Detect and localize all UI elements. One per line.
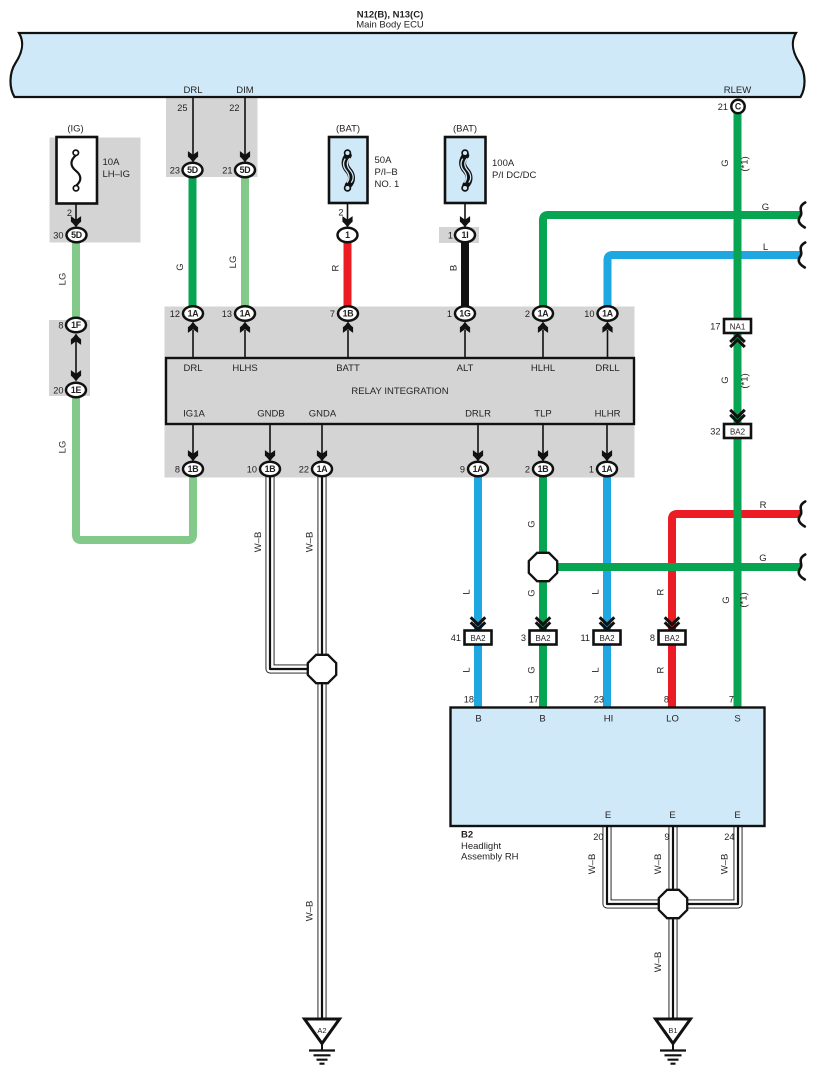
arrowhead relay HLHS up [240,322,250,333]
wire R from right break to headlight pin 8 LO [672,514,800,712]
wire LG from 5D-30 to 1F-8 [72,235,80,325]
svg-text:B: B [449,265,460,271]
svg-text:DRLL: DRLL [595,363,619,374]
svg-text:R: R [760,500,767,511]
svg-text:P/I–B: P/I–B [375,167,398,178]
arrowhead relay GNDA down [317,450,327,461]
svg-text:W–B: W–B [305,901,316,922]
svg-text:2: 2 [525,309,530,319]
svg-text:5D: 5D [71,230,82,240]
svg-text:5D: 5D [240,165,251,175]
connector 1A pin 1 [597,462,617,476]
arrowhead relay GNDB down [265,450,275,461]
wire relay pin GNDB [269,424,271,455]
svg-text:10: 10 [247,465,257,475]
gray panel 1F/1E [49,320,90,396]
svg-text:E: E [605,810,611,821]
svg-text:LG: LG [58,441,69,454]
arrowhead relay TLP down [538,450,548,461]
wire relay pin DRLL [607,330,609,358]
svg-text:1A: 1A [188,309,200,319]
svg-text:BA2: BA2 [730,428,746,437]
svg-text:DRL: DRL [183,363,202,374]
connector 1A pin 12 [183,306,203,320]
svg-text:9: 9 [460,465,465,475]
connector 1A pin 22 [312,462,332,476]
svg-text:22: 22 [299,465,309,475]
svg-text:1: 1 [345,230,350,240]
connector 1A pin 13 [235,306,255,320]
connector 1F pin 8 [66,318,86,332]
arrowhead to 5D-30 [71,216,81,227]
wire relay pin ALT [464,330,466,358]
svg-text:BA2: BA2 [535,634,551,643]
chevron down to BA2-3 [536,617,551,629]
svg-text:G: G [527,520,538,527]
svg-text:RLEW: RLEW [724,85,751,96]
svg-text:100A: 100A [492,158,515,169]
svg-text:B1: B1 [668,1026,677,1035]
svg-text:1B: 1B [265,464,276,474]
svg-text:B: B [539,714,545,725]
svg-text:2: 2 [67,208,72,218]
arrowhead relay BATT up [343,322,353,333]
arrowhead to 5D-21 [240,151,250,162]
connector 1B pin 8 [183,462,203,476]
svg-text:10A: 10A [103,157,121,168]
wire L from relay 1A-9 DRLR to headlight pin 18 [474,469,482,712]
svg-text:(*1): (*1) [740,373,751,388]
svg-text:G: G [720,376,731,383]
break on L wire right [799,243,805,268]
svg-text:50A: 50A [375,155,393,166]
arrowhead to connector 1 of 50A fuse [342,216,352,227]
ground B1 [656,1019,691,1064]
svg-text:1A: 1A [602,464,614,474]
svg-text:5D: 5D [187,165,198,175]
svg-text:(BAT): (BAT) [336,124,360,135]
wire G RLEW from ECU C-21 to headlight pin 7 S [734,106,742,712]
break on G wire right lower [799,555,805,580]
ground A2 [305,1019,340,1064]
chevron up to NA1 [730,335,745,347]
svg-text:LH–IG: LH–IG [103,169,130,180]
svg-text:DRL: DRL [183,85,202,96]
headlight assembly RH box B2 [451,708,765,827]
svg-text:G: G [759,553,766,564]
svg-text:23: 23 [170,166,180,176]
svg-text:1B: 1B [343,309,354,319]
wire relay pin DRL [192,330,194,358]
connector BA2 pin 11 [594,631,621,645]
arrowhead to connector 1I [460,216,470,227]
svg-text:1A: 1A [240,309,252,319]
wire between 1F and 1E [75,337,77,378]
svg-text:ALT: ALT [457,363,474,374]
wire W-B from octagon junction to ground B1 [669,904,678,1019]
wire relay pin DRLR [477,424,479,455]
relay integration box U1 [166,358,634,424]
arrowhead relay HLHL up [538,322,548,333]
wire ECU pin 22 DIM [244,98,246,156]
svg-text:1A: 1A [538,309,550,319]
wire B from fuse 100A to relay 1G-1 [461,235,469,314]
svg-text:3: 3 [521,633,526,643]
connector 5D pin 21 [235,163,255,177]
svg-text:1A: 1A [317,464,329,474]
svg-text:BATT: BATT [336,363,360,374]
arrowhead relay ALT up [460,322,470,333]
chevron down to BA2-11 [600,617,615,629]
svg-text:W–B: W–B [305,532,316,553]
svg-text:LG: LG [228,256,239,269]
svg-text:(IG): (IG) [67,124,83,135]
wire relay pin TLP [542,424,544,455]
svg-text:1B: 1B [538,464,549,474]
arrowhead to 5D-23 [188,151,198,162]
svg-text:G: G [527,666,538,673]
wire relay pin HLHR [606,424,608,455]
junction octagon on W-B wires left [308,655,336,683]
svg-text:41: 41 [451,633,461,643]
svg-text:G: G [527,589,538,596]
svg-text:21: 21 [718,102,728,112]
junction octagon on G wire [529,553,557,581]
svg-text:1A: 1A [602,309,614,319]
svg-text:L: L [462,589,473,594]
svg-text:HLHR: HLHR [595,409,621,420]
svg-text:R: R [656,666,667,673]
fuse 10A LH-IG box [57,137,98,204]
svg-text:18: 18 [464,695,474,705]
arrowhead down to 1E [71,370,81,381]
svg-text:DRLR: DRLR [465,409,491,420]
chevron down to BA2-8 [665,617,680,629]
svg-text:8: 8 [650,633,655,643]
svg-text:32: 32 [710,427,720,437]
svg-text:A2: A2 [317,1026,326,1035]
svg-text:(BAT): (BAT) [453,124,477,135]
svg-text:(*1): (*1) [740,156,751,171]
svg-text:BA2: BA2 [599,634,615,643]
svg-text:W–B: W–B [653,854,664,875]
svg-text:13: 13 [222,309,232,319]
svg-text:Main Body ECU: Main Body ECU [356,20,424,31]
wire relay pin IG1A [192,424,194,455]
wire relay pin BATT [347,330,349,358]
svg-text:1A: 1A [473,464,485,474]
fuse 100A P/I DC/DC box [445,137,486,203]
BACKGROUNDS [49,98,635,478]
svg-text:8: 8 [175,465,180,475]
svg-text:LG: LG [58,273,69,286]
chevron down to BA2-41 [471,617,486,629]
svg-text:RELAY INTEGRATION: RELAY INTEGRATION [351,386,448,397]
svg-text:G: G [175,263,186,270]
svg-text:BA2: BA2 [664,634,680,643]
wire G from 5D-23 to relay 1A-12 [189,170,197,314]
connector 1G pin 1 [455,306,475,320]
svg-text:L: L [591,667,602,672]
chevron down to BA2-32 [730,410,745,422]
connector 1I pin 1 [455,228,475,242]
wire IG fuse output pin 2 [75,191,77,222]
svg-text:7: 7 [330,309,335,319]
connector 1 of 50A fuse [338,228,358,242]
svg-text:30: 30 [53,231,63,241]
svg-text:7: 7 [729,695,734,705]
svg-text:W–B: W–B [253,532,264,553]
wire 50A fuse output pin 2 [347,191,349,222]
arrowhead up to 1F [71,334,81,345]
connector BA2 pin 8 [659,631,686,645]
wire L from relay 1A-1 HLHR to headlight pin 23 [603,469,611,712]
svg-text:HLHS: HLHS [232,363,257,374]
svg-text:2: 2 [525,465,530,475]
wire relay pin HLHL [542,330,544,358]
svg-text:1I: 1I [462,230,469,240]
svg-text:B: B [475,714,481,725]
wire W-B from relay 1A-22 GNDA to octagon junction [318,469,327,669]
svg-text:B2: B2 [461,830,473,841]
svg-text:NO. 1: NO. 1 [375,179,400,190]
fuse 50A P/I-B NO.1 box [329,137,368,203]
svg-text:GNDB: GNDB [257,409,284,420]
svg-text:LO: LO [666,714,679,725]
svg-text:Assembly RH: Assembly RH [461,852,519,863]
connector 1A pin 2 [533,306,553,320]
svg-text:G: G [762,202,769,213]
connector 1E pin 20 [66,383,86,397]
Main Body ECU bar N12(B) N13(C) [10,33,804,97]
svg-text:R: R [656,588,667,595]
wire LG from 5D-21 to relay 1A-13 [241,170,249,314]
svg-text:P/I DC/DC: P/I DC/DC [492,170,536,181]
wire W-B from octagon junction to ground A2 [318,669,327,1019]
svg-text:25: 25 [177,103,187,113]
connector BA2 pin 3 [530,631,557,645]
wire W-B from headlight pin 20 E to octagon junction [607,826,673,904]
svg-text:1: 1 [589,465,594,475]
gray panel DRL/DIM [166,98,258,177]
svg-text:E: E [734,810,740,821]
connector BA2 pin 32 [724,424,751,438]
svg-text:W–B: W–B [720,854,731,875]
svg-text:23: 23 [594,695,604,705]
svg-text:20: 20 [593,832,603,842]
svg-text:Headlight: Headlight [461,841,501,852]
wire G from relay 1B-2 TLP to headlight pin 17 [539,469,547,712]
svg-text:1E: 1E [71,385,82,395]
svg-text:DIM: DIM [236,85,254,96]
connector NA1 pin 17 [724,319,751,333]
svg-text:1B: 1B [188,464,199,474]
svg-text:2: 2 [338,208,343,218]
svg-text:L: L [462,667,473,672]
svg-text:11: 11 [580,633,590,643]
svg-text:10: 10 [584,309,594,319]
wire relay pin GNDA [321,424,323,455]
connector 1B pin 7 [338,306,358,320]
svg-text:L: L [591,589,602,594]
svg-text:21: 21 [222,166,232,176]
gray chip behind connector 1I [439,227,479,243]
svg-text:24: 24 [724,832,734,842]
svg-text:17: 17 [529,695,539,705]
arrowhead relay DRL up [188,322,198,333]
svg-text:20: 20 [53,386,63,396]
svg-text:1: 1 [447,309,452,319]
svg-text:L: L [763,242,768,253]
arrowhead relay DRLL up [602,322,612,333]
connector C pin 21 [731,100,744,113]
wire W-B from relay 1B-10 GNDB to octagon junction [270,469,322,669]
connector 1A pin 10 [598,306,618,320]
svg-text:22: 22 [229,103,239,113]
wire G from relay 1A-2 HLHL to right break [543,215,800,314]
arrowhead relay HLHR down [602,450,612,461]
svg-text:HLHL: HLHL [531,363,555,374]
wire 100A fuse output pin 1 [464,191,466,222]
svg-text:NA1: NA1 [730,323,746,332]
connector 1B pin 10 [260,462,280,476]
arrowhead relay IG1A down [188,450,198,461]
gray panel IG fuse [50,138,141,243]
svg-text:IG1A: IG1A [183,409,205,420]
svg-text:(*1): (*1) [739,592,750,607]
svg-text:R: R [331,264,342,271]
arrowhead relay DRLR down [473,450,483,461]
gray band relay integration [165,307,635,478]
wire L from relay 1A-10 DRLL to right break [608,255,801,314]
break on G wire right top [799,203,805,228]
svg-text:W–B: W–B [587,854,598,875]
connector 5D pin 30 [67,228,87,242]
wire LG from 1E-20 to relay 1B-8 IG1A [76,390,193,540]
connector BA2 pin 41 [465,631,492,645]
svg-text:W–B: W–B [653,952,664,973]
junction octagon on W-B wires right [659,890,687,918]
connector 5D pin 23 [183,163,203,177]
svg-text:9: 9 [664,832,669,842]
wire G from junction octagon to right break [543,563,800,571]
break on R wire right [799,502,805,527]
svg-text:S: S [734,714,740,725]
svg-text:G: G [720,159,731,166]
svg-text:E: E [669,810,675,821]
wire R from fuse 50A to relay 1B-7 [344,235,352,314]
svg-text:17: 17 [710,322,720,332]
svg-text:TLP: TLP [534,409,551,420]
svg-text:GNDA: GNDA [309,409,337,420]
wire ECU pin 25 DRL [192,98,194,156]
svg-text:1: 1 [448,231,453,241]
svg-text:1F: 1F [71,320,82,330]
svg-text:HI: HI [604,714,614,725]
wire relay pin HLHS [244,330,246,358]
svg-text:12: 12 [170,309,180,319]
svg-text:1G: 1G [459,309,471,319]
svg-text:8: 8 [664,695,669,705]
wire W-B from headlight pin 24 E to octagon junction [673,826,738,904]
wire W-B from headlight pin 9 E to octagon junction [669,826,678,904]
connector 1B pin 2 [533,462,553,476]
connector 1A pin 9 [468,462,488,476]
svg-text:C: C [735,102,742,112]
svg-text:8: 8 [58,321,63,331]
svg-text:G: G [721,596,732,603]
svg-text:BA2: BA2 [470,634,486,643]
